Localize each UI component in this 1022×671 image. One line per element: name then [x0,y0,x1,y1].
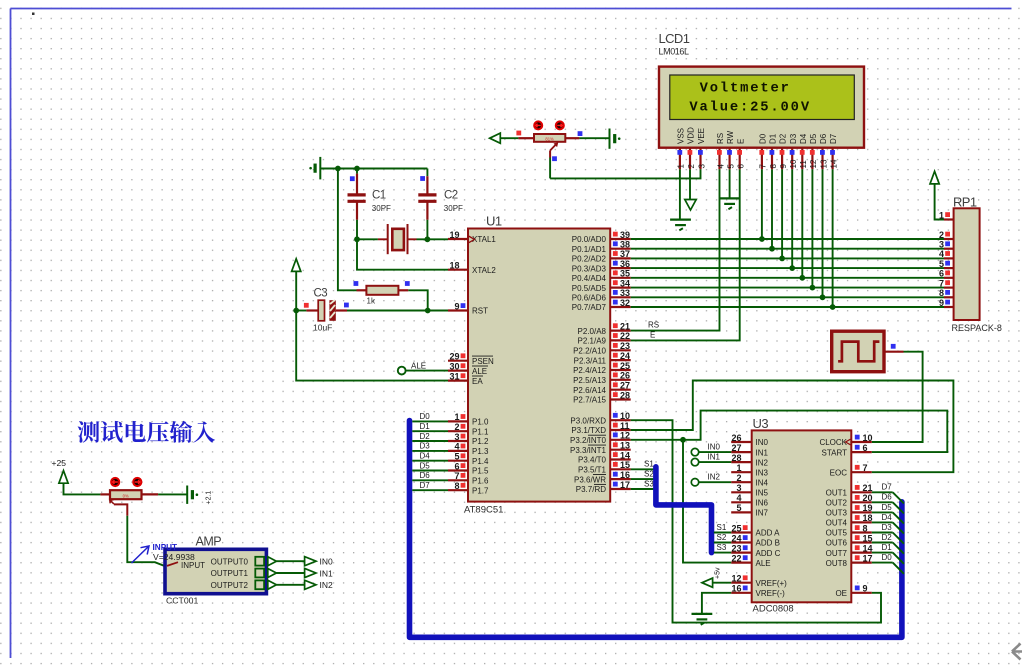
wire P1.7 to bus (D7) [412,489,448,491]
wire LCD VEE to pot wiper [550,169,700,178]
svg-text:7: 7 [863,463,868,473]
ground (LCD VSS) [670,219,691,221]
wire xtal2 net [357,238,378,240]
LCD pin 1 (VSS) [679,148,681,170]
svg-text:P1.6: P1.6 [472,477,489,486]
svg-text:D2: D2 [779,133,788,144]
svg-text:5: 5 [939,259,944,269]
svg-text:XTAL2: XTAL2 [472,266,496,275]
capacitor C2 [426,169,428,177]
LCD pin 8 (D1) [771,148,773,170]
U1 pin 2 (P1.1) [448,430,468,432]
svg-text:D4: D4 [882,513,893,522]
svg-text:5: 5 [736,503,741,513]
svg-text:2: 2 [454,422,459,432]
U3 CLOCK clock mark [846,439,851,445]
svg-text:IN0: IN0 [320,557,334,567]
wire OUT2 to bus (D6) [872,501,893,503]
U1 pin 25 (P2.4/A12) [610,369,631,371]
svg-text:P0.2/AD2: P0.2/AD2 [572,255,607,264]
svg-text:13: 13 [819,159,828,168]
svg-text:D1: D1 [420,422,431,431]
svg-text:P3.1/TXD: P3.1/TXD [571,426,606,435]
U1 pin 30 (ALE) [448,370,468,372]
LCD pin 5 (RW) [728,148,730,170]
svg-text:P3.2/INT0: P3.2/INT0 [570,436,607,445]
U1 pin 8 (P1.7) [448,489,468,491]
svg-text:8: 8 [454,481,459,491]
lcd LCD1 body [659,67,864,148]
svg-text:IN6: IN6 [756,499,769,508]
U3 pin 14 (OUT7) [851,551,872,553]
wire S3 (ADC side) [714,552,731,554]
svg-text:P0.7/AD7: P0.7/AD7 [572,303,607,312]
U1 pin 35 (P0.4/AD4) [610,277,631,279]
U3 pin 15 (OUT6) [851,541,872,543]
wire P3.0 to OE loop [631,420,881,622]
junction D4/P0.4 [799,275,805,281]
RP1 pin 6 [944,277,954,279]
svg-text:D3: D3 [420,442,431,451]
U3 pin 23 (ADD C) [731,551,752,553]
svg-text:P1.0: P1.0 [472,418,489,427]
svg-text:10uF: 10uF [313,323,332,333]
U3 pin 16 (VREF(-)) [731,592,752,594]
svg-text:INPUT: INPUT [153,543,178,552]
svg-text:OUT3: OUT3 [826,509,848,518]
svg-text:P2.5/A13: P2.5/A13 [573,376,606,385]
svg-text:D7: D7 [882,483,893,492]
svg-text:P3.4/T0: P3.4/T0 [578,456,607,465]
U1 pin 1 (P1.0) [448,420,468,422]
svg-text:13: 13 [620,441,630,451]
svg-text:VREF(-): VREF(-) [756,589,786,598]
U3 pin 25 (ADD A) [731,531,752,533]
junction 1k/RST [425,308,431,314]
annotation arrow INPUT [132,546,150,563]
RP1 pin 3 [944,248,954,250]
svg-text:20: 20 [863,493,873,503]
svg-text:10: 10 [620,411,630,421]
U1 pin 34 (P0.5/AD5) [610,287,631,289]
U3 pin 9 (OE) [851,592,872,594]
U1 pin 11 (P3.1/TXD) [610,429,631,431]
junction D5/P0.5 [810,285,816,291]
wire clkgen to U3 CLOCK [872,352,923,442]
svg-text:17: 17 [620,480,630,490]
wire OUT6 to bus (D2) [872,542,893,544]
svg-text:S3: S3 [644,479,654,488]
RP1 pin 7 [944,287,954,289]
svg-text:7: 7 [759,164,768,169]
junction D2/P0.2 [779,256,785,262]
U1 XTAL1 clock mark [469,236,475,243]
wire S2 (ADC side) [714,542,731,544]
svg-text:31: 31 [449,371,459,381]
power rail cell (top left) [319,157,321,180]
wire OUTPUT2 to IN2 [276,584,304,586]
svg-text:IN7: IN7 [756,509,769,518]
svg-text:D6: D6 [420,471,431,480]
svg-text:S1: S1 [644,460,654,469]
wire LCD D1 drop [771,169,773,248]
svg-text:D1: D1 [882,543,893,552]
LCD pin 2 (VDD) [689,148,691,170]
wire LCD D7 drop [832,169,834,307]
svg-text:D3: D3 [882,523,893,532]
power rail cell (+2.1) [186,486,188,504]
bus S1-S3 [656,467,712,553]
svg-text:1: 1 [736,463,741,473]
LCD pin 12 (D5) [811,148,813,170]
U1 pin 7 (P1.6) [448,479,468,481]
svg-text:23: 23 [620,341,630,351]
svg-text:LCD1: LCD1 [659,31,690,46]
terminal circle IN0 [691,448,698,455]
svg-text:P2.4/A12: P2.4/A12 [573,366,606,375]
svg-text:CLOCK: CLOCK [819,438,847,447]
junction D7/P0.7 [830,304,836,310]
clock generator body [832,331,884,372]
junction xtal1 [425,236,431,242]
wire START branch [683,411,947,453]
wire OUT1 to bus (D7) [872,491,893,493]
svg-text:22: 22 [731,553,741,563]
respack RP1 body [954,208,980,320]
svg-text:S1: S1 [717,523,727,532]
U1 pin 37 (P0.2/AD2) [610,257,631,259]
U3 pin 28 (IN2) [731,461,752,463]
svg-text:P2.6/A14: P2.6/A14 [573,386,606,395]
svg-text:P0.0/AD0: P0.0/AD0 [572,235,607,244]
U3 pin 7 (EOC) [851,471,872,473]
svg-text:P2.0/A8: P2.0/A8 [578,327,607,336]
svg-text:P2.7/A15: P2.7/A15 [573,396,606,405]
svg-text:D4: D4 [799,133,808,144]
svg-text:0%: 0% [123,493,129,498]
svg-text:U3: U3 [753,416,769,431]
svg-text:P1.5: P1.5 [472,467,489,476]
svg-text:P1.2: P1.2 [472,437,489,446]
svg-text:OUT1: OUT1 [826,489,848,498]
svg-text:ALE: ALE [411,361,426,370]
U1 pin 5 (P1.4) [448,460,468,462]
U1 pin 39 (P0.0/AD0) [610,238,631,240]
svg-text:D2: D2 [882,533,893,542]
U3 pin 8 (OUT5) [851,531,872,533]
svg-text:OUTPUT2: OUTPUT2 [211,581,249,590]
svg-text:OUTPUT1: OUTPUT1 [211,569,249,578]
svg-text:D4: D4 [420,452,431,461]
svg-text:ADD C: ADD C [756,549,781,558]
wire P0.7 bus line [631,306,944,308]
U1 pin 13 (P3.3/INT1) [610,449,631,451]
U3 pin 17 (OUT8) [851,561,872,563]
svg-text:11: 11 [799,160,808,169]
svg-text:P1.3: P1.3 [472,447,489,456]
svg-text:25: 25 [731,523,741,533]
terminal circle IN1 [691,458,698,465]
U1 pin 33 (P0.6/AD6) [610,296,631,298]
wire OUT8 to bus (D0) [872,562,893,564]
svg-text:27: 27 [620,381,630,391]
svg-text:P3.7/RD: P3.7/RD [576,485,606,494]
pot RV2 knob left [111,478,119,486]
svg-text:12: 12 [731,574,741,584]
wire pot to cell [579,137,609,139]
terminal arrow IN1 [305,568,316,577]
wire xtal1 net [417,238,449,240]
svg-text:14: 14 [829,159,838,168]
svg-text:D7: D7 [829,133,838,144]
wire LCD VSS to ground [679,169,681,219]
svg-text:AT89C51: AT89C51 [464,505,503,516]
svg-text:21: 21 [863,483,873,493]
svg-text:D2: D2 [420,432,431,441]
svg-text:IN4: IN4 [756,478,769,487]
wire LCD RW to ground [729,169,731,198]
lcd screen [670,75,855,120]
svg-text:OUT2: OUT2 [826,499,848,508]
svg-text:Voltmeter: Voltmeter [700,80,791,96]
LCD pin 14 (D7) [831,148,833,170]
svg-text:25: 25 [620,361,630,371]
wire P3.1 to EOC [631,381,954,473]
svg-text:6: 6 [737,164,746,169]
U3 pin 1 (IN3) [731,471,752,473]
junction D1/P0.1 [769,246,775,252]
svg-text:P2.3/A11: P2.3/A11 [574,356,607,365]
svg-text:OUT5: OUT5 [826,529,848,538]
U1 pin 3 (P1.2) [448,440,468,442]
U1 pin 16 (P3.6/WR) [610,478,631,480]
svg-text:LM016L: LM016L [659,47,690,57]
LCD pin 11 (D4) [801,148,803,170]
svg-text:32: 32 [620,298,630,308]
wire P3.2 to ALE [631,440,732,563]
svg-text:7: 7 [454,471,459,481]
wire P1.4 to bus (D4) [412,460,448,462]
U1 pin 10 (P3.0/RXD) [610,419,631,421]
svg-text:OUT6: OUT6 [826,539,848,548]
svg-text:17: 17 [863,553,873,563]
terminal arrow IN0 [305,557,316,566]
U1 pin 24 (P2.3/A11) [610,359,631,361]
U3 pin 2 (IN4) [731,481,752,483]
svg-text:IN0: IN0 [708,443,721,452]
wire +25 to pot [64,483,101,494]
U1 pin 21 (P2.0/A8) [610,330,631,332]
ground (U3 VREF-) [692,613,713,615]
svg-text:1: 1 [677,164,686,169]
junction D0/P0.0 [759,236,765,242]
svg-text:3: 3 [454,432,459,442]
pot RV2 wiper [110,500,114,504]
svg-text:30: 30 [449,361,459,371]
svg-text:INPUT: INPUT [181,561,205,570]
wire P0.5 bus line [631,287,944,289]
wire P1.6 to bus (D6) [412,479,448,481]
svg-text:RW: RW [726,130,735,144]
svg-text:6: 6 [454,461,459,471]
wire vcc top rail [320,168,427,170]
svg-text:18: 18 [449,261,459,271]
amp body [165,549,266,593]
svg-text:30PF: 30PF [444,204,463,213]
pot RV2 knob right [133,478,141,486]
svg-text:P3.3/INT1: P3.3/INT1 [570,446,607,455]
terminal circle IN2 [691,479,698,486]
wire P0.6 bus line [631,296,944,298]
svg-text:OUTPUT0: OUTPUT0 [211,557,249,566]
wire S1 (ADC side) [714,532,731,534]
svg-text:S3: S3 [717,543,727,552]
svg-text:OUT7: OUT7 [826,549,848,558]
wire LCD D0 drop [761,169,763,239]
svg-text:26: 26 [620,371,630,381]
svg-text:E: E [736,139,745,144]
LCD pin 3 (VEE) [699,148,701,170]
wire P0.2 bus line [631,257,944,259]
U1 pin 29 (PSEN) [448,360,468,362]
svg-text:P1.1: P1.1 [472,427,489,436]
title 测试电压输入 [78,421,100,443]
svg-text:P1.4: P1.4 [472,457,489,466]
pot RV1 knob left [534,121,542,129]
wire pow to pot [500,137,518,139]
svg-text:V=24.9938: V=24.9938 [153,552,195,562]
svg-text:3: 3 [939,240,944,250]
wire LCD D3 drop [791,169,793,268]
junction D3/P0.3 [789,265,795,271]
svg-text:15: 15 [620,460,630,470]
svg-text:2: 2 [939,230,944,240]
svg-text:D6: D6 [882,493,893,502]
U1 pin 18 (XTAL2) [448,269,468,271]
capacitor C1 [356,169,358,174]
svg-text:4: 4 [716,164,725,169]
svg-text:21: 21 [620,321,630,331]
wire P1.0 to bus (D0) [412,420,448,422]
wire P1.1 to bus (D1) [412,430,448,432]
wire LCD D5 drop [811,169,813,287]
svg-text:E: E [650,331,655,340]
wire P0.4 bus line [631,277,944,279]
U3 pin 26 (IN0) [731,441,752,443]
U1 pin 19 (XTAL1) [448,238,468,240]
svg-text:CCT001: CCT001 [166,596,199,606]
wire P0.0 bus line [631,238,944,240]
svg-text:S2: S2 [644,469,654,478]
svg-text:P3.5/T1: P3.5/T1 [578,466,607,475]
svg-text:12: 12 [620,431,630,441]
svg-text:P0.1/AD1: P0.1/AD1 [572,245,607,254]
svg-text:81%: 81% [545,136,554,141]
wire P1.2 to bus (D2) [412,440,448,442]
svg-text:14: 14 [863,543,873,553]
svg-text:ADD A: ADD A [756,529,781,538]
svg-text:+5v: +5v [715,567,722,579]
svg-text:Value:25.00V: Value:25.00V [689,99,811,115]
svg-text:D5: D5 [809,133,818,144]
wire LCD D2 drop [781,169,783,258]
svg-text:C3: C3 [314,288,328,300]
junction INT0/ALE/START [680,437,686,443]
svg-text:C2: C2 [444,190,458,202]
crystal X1 [378,238,388,240]
U1 pin 28 (P2.7/A15) [610,398,631,400]
power terminal down (LCD VDD) [685,200,696,211]
power terminal up (VCC reset) [292,259,301,272]
svg-text:14: 14 [620,450,630,460]
wire rail to 1k [338,169,357,291]
svg-text:RS: RS [648,321,659,330]
svg-text:IN1: IN1 [756,448,769,457]
LCD pin 13 (D6) [821,148,823,170]
U3 pin 5 (IN7) [731,511,752,513]
svg-text:5: 5 [454,452,459,462]
mcu U1 body [468,229,610,502]
U3 pin 18 (OUT4) [851,521,872,523]
RP1 pin 1 [944,218,954,220]
wire LCD E to U1 P2.1 [631,169,740,340]
svg-text:3: 3 [736,483,741,493]
ground (LCD RW) [719,197,740,199]
svg-text:33: 33 [620,288,630,298]
svg-text:VEE: VEE [697,128,706,144]
svg-text:START: START [822,448,848,457]
svg-text:+25: +25 [52,458,67,468]
svg-text:+2.1: +2.1 [206,491,213,505]
svg-text:1: 1 [454,412,459,422]
clock gen output pin [884,351,904,353]
wire OUT3 to bus (D5) [872,511,893,513]
wire OUTPUT1 to IN1 [276,572,304,574]
svg-text:IN3: IN3 [756,468,769,477]
svg-text:3: 3 [697,164,706,169]
svg-text:9: 9 [939,298,944,308]
wire LCD D4 drop [801,169,803,277]
U1 pin 14 (P3.4/T0) [610,458,631,460]
svg-text:1k: 1k [367,297,376,306]
power rail cell (pot right) [609,129,611,149]
junction vcc/C3 [293,308,299,314]
U3 pin 3 (IN5) [731,491,752,493]
svg-text:D3: D3 [789,133,798,144]
U1 pin 32 (P0.7/AD7) [610,306,631,308]
svg-text:P0.6/AD6: P0.6/AD6 [572,294,607,303]
svg-text:P1.7: P1.7 [472,486,489,495]
svg-text:P3.6/WR: P3.6/WR [574,475,606,484]
wire RP1 pin1 to power [935,184,944,220]
U3 pin 21 (OUT1) [851,491,872,493]
clock generator glyph [838,342,879,362]
junction D6/P0.6 [820,294,826,300]
svg-text:XTAL1: XTAL1 [472,235,496,244]
svg-text:P0.3/AD3: P0.3/AD3 [572,264,607,273]
U1 pin 6 (P1.5) [448,469,468,471]
pot RV1 knob right [556,121,564,129]
svg-text:22: 22 [620,331,630,341]
svg-text:2: 2 [736,473,741,483]
svg-text:34: 34 [620,278,630,288]
svg-text:OE: OE [835,589,847,598]
svg-text:8: 8 [769,164,778,169]
U3 pin 12 (VREF(+)) [731,582,752,584]
svg-text:16: 16 [731,584,741,594]
wire pot to cell (+2.1) [158,493,187,495]
capacitor C3 (10uF) [296,310,306,312]
